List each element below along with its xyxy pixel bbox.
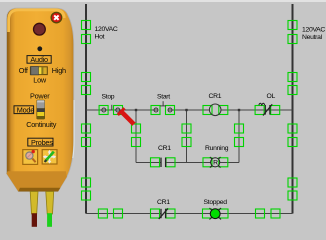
svg-text:Low: Low [33, 76, 47, 85]
Probes label box [28, 138, 53, 147]
test point right rail 5 [288, 124, 297, 133]
test point CR1 contact rung3 left [151, 209, 160, 218]
svg-text:Continuity: Continuity [26, 120, 57, 129]
lamp Running [210, 157, 221, 168]
small hole [37, 46, 42, 51]
Mode label box [14, 105, 34, 114]
test point rung3 c [256, 209, 265, 218]
test point OL left [255, 106, 264, 115]
test point rung3 d [271, 209, 280, 218]
test point OL right [271, 106, 280, 115]
test point rung3 a [98, 209, 107, 218]
test point left rail 4 [82, 86, 91, 95]
test point Running lamp left [203, 158, 212, 167]
contact CR1 (NO) on rung 2 [161, 158, 166, 167]
svg-text:Running: Running [205, 145, 229, 152]
test point left rail 7 [82, 178, 91, 187]
svg-text:Neutral: Neutral [302, 34, 323, 41]
rung 3 wire [86, 213, 293, 215]
left rail (120VAC Hot) [85, 4, 87, 214]
test point CR1 contact rung2 left [151, 158, 160, 167]
branch wire at node after Stop (x=136) [135, 110, 137, 162]
test point Stopped lamp left [203, 209, 212, 218]
test points: green squares [82, 21, 298, 219]
test point branch x239 upper [235, 124, 244, 133]
test point right rail 1 [288, 21, 297, 30]
test point CR1 contact rung2 right [166, 158, 175, 167]
contact CR1 (NC) on rung 3 [159, 208, 168, 219]
svg-text:Stop: Stop [102, 94, 115, 101]
probe lead right (neck) [46, 192, 54, 215]
svg-text:R: R [213, 159, 218, 166]
test point rung3 b [114, 209, 123, 218]
close button [51, 12, 61, 22]
svg-text:CR1: CR1 [157, 199, 170, 206]
test point Start terminal left [151, 106, 160, 115]
rung 1 wire [86, 109, 293, 111]
test point right rail 6 [288, 138, 297, 147]
test point Stopped lamp right [219, 209, 228, 218]
tester body [7, 8, 75, 192]
overload contact OL [259, 103, 272, 115]
test point branch x186 upper [182, 124, 191, 133]
test point CR1 coil left [203, 106, 212, 115]
test point branch x186 lower [182, 138, 191, 147]
junction node B [185, 109, 187, 111]
power switch [37, 100, 45, 119]
red probe [118, 108, 134, 124]
relay coil CR1 [209, 104, 221, 116]
probe tip green [47, 213, 52, 227]
test point right rail 2 [288, 35, 297, 44]
test point Start terminal right [166, 106, 175, 115]
test point right rail 8 [288, 191, 297, 200]
test point CR1 contact rung3 right [166, 209, 175, 218]
probe lead left (neck) [30, 192, 38, 215]
lamp Stopped (lit) [210, 208, 222, 220]
junction node A [135, 109, 137, 111]
svg-text:Off: Off [19, 66, 29, 75]
svg-text:120VAC: 120VAC [302, 27, 325, 34]
test point left rail 2 [82, 35, 91, 44]
test point branch x136 lower [132, 138, 141, 147]
test point branch x136 upper [132, 124, 141, 133]
test point right rail 3 [288, 73, 297, 82]
audio slider [30, 67, 47, 75]
svg-text:Mode: Mode [17, 105, 34, 114]
svg-text:Stopped: Stopped [204, 199, 228, 206]
test point Stop terminal right [114, 106, 123, 115]
pushbutton Start (NO) [154, 101, 172, 112]
svg-text:CR1: CR1 [209, 93, 222, 100]
test point right rail 4 [288, 86, 297, 95]
svg-text:Start: Start [157, 94, 170, 101]
test point Stop terminal left [99, 106, 108, 115]
test point right rail 7 [288, 178, 297, 187]
test point left rail 6 [82, 138, 91, 147]
svg-text:120VAC: 120VAC [95, 26, 118, 33]
svg-text:Power: Power [30, 91, 50, 100]
test point branch x239 lower [235, 138, 244, 147]
svg-text:CR1: CR1 [158, 145, 171, 152]
test point left rail 5 [82, 124, 91, 133]
junction node C [238, 109, 240, 111]
svg-text:Audio: Audio [30, 55, 48, 64]
probe move button [42, 150, 57, 164]
branch wire at node before OL (x=239) [238, 110, 240, 162]
test point left rail 1 [82, 21, 91, 30]
test point left rail 3 [82, 73, 91, 82]
Audio label box [27, 55, 51, 64]
probe inspect button [23, 150, 38, 165]
test point CR1 coil right [219, 106, 228, 115]
svg-text:OL: OL [267, 93, 276, 100]
test point Running lamp right [219, 158, 228, 167]
probe tip red [32, 213, 37, 227]
pushbutton Stop (NC) [102, 105, 120, 112]
right rail (120VAC Neutral) [292, 4, 294, 214]
branch wire at node after Start (x=186.5) [186, 110, 188, 162]
svg-text:High: High [52, 66, 66, 75]
svg-text:Hot: Hot [95, 33, 105, 40]
test point left rail 8 [82, 191, 91, 200]
indicator lamp [34, 23, 46, 35]
svg-text:Probes: Probes [31, 138, 53, 147]
rung 2 wire [136, 161, 239, 163]
